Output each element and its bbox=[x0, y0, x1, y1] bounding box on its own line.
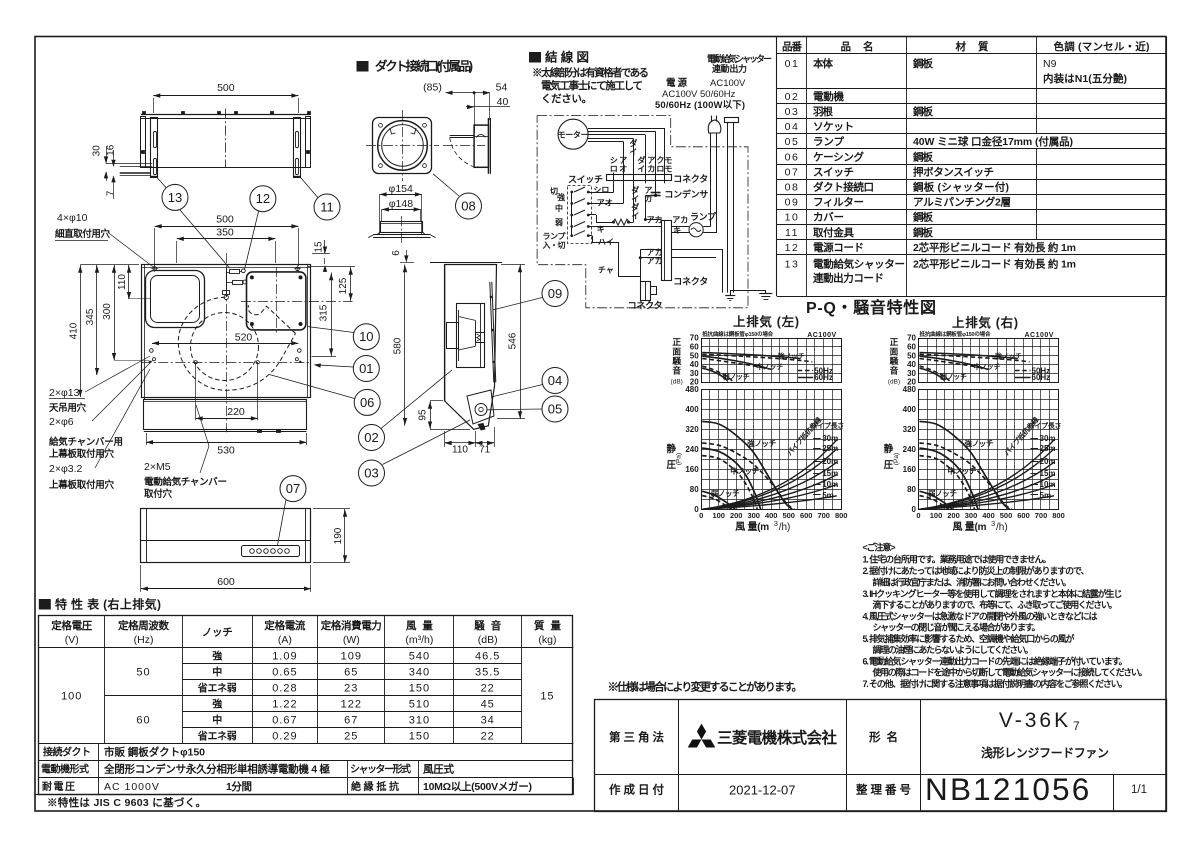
motor M bbox=[558, 119, 588, 149]
svg-text:05: 05 bbox=[785, 136, 800, 148]
svg-text:16: 16 bbox=[106, 144, 117, 156]
svg-text:600: 600 bbox=[217, 576, 235, 588]
svg-text:520: 520 bbox=[235, 332, 253, 344]
svg-text:0: 0 bbox=[699, 511, 703, 520]
svg-text:弱ノッチ: 弱ノッチ bbox=[711, 488, 740, 498]
svg-text:電 源: 電 源 bbox=[666, 77, 687, 89]
svg-text:2×φ13: 2×φ13 bbox=[49, 387, 80, 399]
svg-text:60: 60 bbox=[136, 714, 150, 726]
svg-text:800: 800 bbox=[835, 511, 848, 520]
fan curve strong 60Hz bbox=[702, 421, 792, 509]
front elevation outline bbox=[141, 509, 311, 563]
svg-text:電源コード: 電源コード bbox=[813, 241, 864, 254]
svg-text:強: 強 bbox=[212, 650, 222, 663]
svg-text:2021-12-07: 2021-12-07 bbox=[729, 783, 796, 798]
svg-text:5. 排気捕集効率に影響するため、空調機や給気口からの風が: 5. 排気捕集効率に影響するため、空調機や給気口からの風が bbox=[863, 633, 1076, 644]
svg-text:ク: ク bbox=[656, 155, 664, 165]
balloon 08 + leader bbox=[456, 193, 482, 219]
svg-text:中ノッチ: 中ノッチ bbox=[756, 362, 783, 371]
fan curve strong 50Hz bbox=[920, 443, 1012, 509]
fan curve mid 60Hz bbox=[702, 448, 761, 509]
svg-text:80: 80 bbox=[690, 485, 699, 494]
svg-text:強ノッチ: 強ノッチ bbox=[995, 351, 1022, 360]
svg-text:30m: 30m bbox=[822, 434, 838, 443]
svg-text:1. 住宅の台所用です。業務用途では使用できません。: 1. 住宅の台所用です。業務用途では使用できません。 bbox=[863, 554, 1052, 565]
svg-text:67: 67 bbox=[344, 714, 358, 726]
svg-text:04: 04 bbox=[548, 373, 562, 388]
svg-text:03: 03 bbox=[364, 466, 378, 481]
svg-text:2. 据付けにあたっては地域により防災上の制限がありますので: 2. 据付けにあたっては地域により防災上の制限がありますので、 bbox=[863, 565, 1090, 576]
svg-text:作 成 日 付: 作 成 日 付 bbox=[609, 783, 665, 797]
chart grid (noise plot) bbox=[919, 338, 1059, 340]
main vertical centerline bbox=[226, 253, 228, 432]
svg-text:抵抗曲線は鋼板管φ150の場合: 抵抗曲線は鋼板管φ150の場合 bbox=[920, 330, 991, 338]
svg-text:(dB): (dB) bbox=[478, 634, 498, 646]
svg-text:強: 強 bbox=[212, 697, 222, 710]
svg-text:抵抗曲線は鋼板管φ150の場合: 抵抗曲線は鋼板管φ150の場合 bbox=[702, 330, 773, 338]
svg-text:3. IHクッキングヒーター等を使用して調理をされますと本体: 3. IHクッキングヒーター等を使用して調理をされますと本体に結露が生じ bbox=[863, 588, 1123, 599]
svg-text:中: 中 bbox=[555, 203, 563, 213]
svg-text:400: 400 bbox=[685, 405, 699, 414]
svg-text:品番: 品番 bbox=[782, 40, 803, 53]
svg-text:ダクト接続口: ダクト接続口 bbox=[813, 180, 874, 193]
svg-text:イ: イ bbox=[631, 212, 639, 221]
ground symbol right bbox=[759, 293, 772, 295]
svg-text:150: 150 bbox=[409, 730, 430, 742]
balloon 09 + leader bbox=[542, 281, 568, 307]
svg-text:122: 122 bbox=[341, 698, 362, 710]
svg-text:コネクタ: コネクタ bbox=[673, 173, 708, 184]
svg-text:風 量: 風 量 bbox=[406, 619, 434, 632]
svg-text:キ: キ bbox=[673, 226, 681, 235]
svg-text:110: 110 bbox=[452, 445, 468, 456]
duct adapter bottom view bbox=[381, 222, 423, 233]
connector 3 bbox=[641, 282, 651, 301]
svg-text:調理の油煙にあたらないようにしてください。: 調理の油煙にあたらないようにしてください。 bbox=[873, 644, 1034, 655]
svg-text:カ: カ bbox=[647, 165, 655, 174]
svg-text:25m: 25m bbox=[822, 444, 838, 453]
svg-text:95: 95 bbox=[417, 409, 428, 421]
svg-text:オ: オ bbox=[619, 165, 627, 174]
svg-text:チャ: チャ bbox=[598, 266, 614, 275]
svg-text:05: 05 bbox=[548, 402, 562, 417]
fan impeller dashed circle bbox=[191, 313, 259, 381]
svg-text:480: 480 bbox=[685, 385, 699, 394]
svg-text:20m: 20m bbox=[1040, 457, 1056, 466]
fan curve mid 50Hz bbox=[920, 456, 975, 510]
switch contacts bbox=[571, 192, 573, 237]
svg-text:4. 風圧式シャッターは急激なドアの開閉や外風の強いときなど: 4. 風圧式シャッターは急激なドアの開閉や外風の強いときなどには bbox=[863, 611, 1098, 622]
svg-text:160: 160 bbox=[685, 465, 699, 474]
balloon 07 + leader bbox=[280, 476, 306, 502]
svg-text:弱ノッチ: 弱ノッチ bbox=[940, 372, 967, 381]
svg-text:13: 13 bbox=[785, 259, 800, 271]
ground symbol left bbox=[725, 295, 735, 297]
svg-text:全閉形コンデンサ永久分相形単相誘導電動機 4 極: 全閉形コンデンサ永久分相形単相誘導電動機 4 極 bbox=[103, 763, 331, 776]
svg-text:コンデンサ: コンデンサ bbox=[664, 189, 708, 200]
dim phi154 bbox=[379, 194, 381, 235]
svg-text:※仕様は場合により変更することがあります。: ※仕様は場合により変更することがあります。 bbox=[608, 680, 803, 694]
svg-text:0: 0 bbox=[916, 511, 920, 520]
leader 11 to bracket bbox=[301, 178, 318, 198]
svg-text:ダ: ダ bbox=[637, 155, 645, 165]
svg-text:10: 10 bbox=[359, 329, 373, 344]
svg-text:N9: N9 bbox=[1043, 58, 1057, 70]
bottom feet marks bbox=[258, 430, 262, 433]
svg-text:08: 08 bbox=[785, 181, 800, 193]
svg-text:騒 音: 騒 音 bbox=[473, 619, 502, 632]
fan curve weak 60Hz bbox=[920, 491, 953, 509]
svg-text:面: 面 bbox=[890, 347, 899, 357]
balloon 13 bbox=[162, 184, 188, 210]
svg-text:上幕板取付用穴: 上幕板取付用穴 bbox=[49, 448, 114, 460]
M5 hole extension lines + holes bbox=[195, 362, 197, 420]
fan curve strong 60Hz bbox=[920, 421, 1010, 509]
svg-text:350: 350 bbox=[216, 226, 234, 238]
svg-text:1/1: 1/1 bbox=[1131, 784, 1147, 796]
svg-text:鋼板: 鋼板 bbox=[912, 57, 934, 70]
svg-text:接続ダクト: 接続ダクト bbox=[43, 746, 91, 759]
svg-text:定格消費電力: 定格消費電力 bbox=[320, 619, 382, 632]
svg-text:強ノッチ: 強ノッチ bbox=[778, 351, 805, 360]
lower front section bbox=[144, 398, 146, 400]
svg-text:中ノッチ: 中ノッチ bbox=[948, 466, 977, 476]
svg-text:音: 音 bbox=[890, 365, 899, 376]
svg-text:50: 50 bbox=[690, 351, 699, 360]
left mounting bracket (part 11) bbox=[141, 117, 146, 168]
svg-text:09: 09 bbox=[548, 286, 562, 301]
dim 6 top bbox=[406, 250, 408, 262]
svg-text:面: 面 bbox=[672, 347, 681, 357]
svg-text:耐 電 圧: 耐 電 圧 bbox=[42, 780, 77, 793]
switch panel (part 07) bbox=[242, 546, 300, 557]
svg-text:(kg): (kg) bbox=[538, 634, 556, 646]
svg-text:200: 200 bbox=[947, 511, 960, 520]
dim 530 bbox=[146, 433, 148, 445]
svg-text:上排気 (右): 上排気 (右) bbox=[952, 315, 1018, 330]
svg-text:546: 546 bbox=[507, 332, 518, 349]
svg-text:NB121056: NB121056 bbox=[925, 771, 1091, 807]
svg-text:音: 音 bbox=[672, 365, 681, 376]
svg-text:345: 345 bbox=[85, 308, 96, 325]
svg-text:6: 6 bbox=[391, 250, 402, 256]
svg-text:500: 500 bbox=[1000, 511, 1013, 520]
motor and casing bbox=[457, 304, 485, 368]
svg-text:02: 02 bbox=[364, 430, 378, 445]
svg-text:P-Q・騒音特性図: P-Q・騒音特性図 bbox=[806, 298, 936, 317]
svg-text:40W ミニ球 口金径17mm (付属品): 40W ミニ球 口金径17mm (付属品) bbox=[913, 135, 1073, 148]
svg-text:400: 400 bbox=[903, 405, 917, 414]
section title duct adapter bbox=[357, 61, 369, 72]
ground bracket bbox=[730, 290, 766, 292]
svg-text:カバー: カバー bbox=[813, 212, 844, 224]
svg-text:φ148: φ148 bbox=[389, 198, 413, 210]
svg-text:25: 25 bbox=[344, 730, 358, 742]
svg-text:07: 07 bbox=[785, 166, 800, 178]
svg-text:AC100V: AC100V bbox=[710, 78, 746, 89]
characteristics table title bbox=[39, 599, 51, 610]
svg-text:3: 3 bbox=[991, 519, 995, 528]
svg-text:弱ノッチ: 弱ノッチ bbox=[723, 372, 750, 381]
svg-text:市販 鋼板ダクトφ150: 市販 鋼板ダクトφ150 bbox=[104, 746, 205, 759]
svg-text:12: 12 bbox=[256, 191, 270, 206]
svg-text:コネクタ: コネクタ bbox=[673, 276, 708, 287]
noise curves bbox=[920, 353, 1018, 359]
svg-text:09: 09 bbox=[785, 197, 800, 209]
svg-text:01: 01 bbox=[359, 361, 373, 376]
svg-text:中: 中 bbox=[212, 713, 222, 726]
svg-text:羽根: 羽根 bbox=[813, 105, 834, 118]
svg-text:0.28: 0.28 bbox=[272, 682, 297, 694]
svg-text:410: 410 bbox=[69, 322, 80, 339]
svg-text:スイッチ: スイッチ bbox=[568, 175, 603, 185]
svg-text:1.09: 1.09 bbox=[272, 651, 297, 663]
svg-text:アカ: アカ bbox=[647, 215, 663, 224]
svg-text:(dB): (dB) bbox=[888, 379, 900, 386]
svg-text:07: 07 bbox=[286, 481, 300, 496]
svg-text:ロ: ロ bbox=[656, 165, 664, 174]
svg-text:電動給気シャッター: 電動給気シャッター bbox=[813, 258, 905, 271]
svg-text:150: 150 bbox=[409, 682, 430, 694]
dim 54 bbox=[483, 91, 490, 95]
svg-text:イ: イ bbox=[637, 165, 645, 174]
svg-text:160: 160 bbox=[903, 465, 917, 474]
connector bar 1 bbox=[607, 175, 672, 181]
svg-text:鋼板: 鋼板 bbox=[912, 105, 934, 118]
svg-text:15m: 15m bbox=[822, 469, 838, 478]
characteristics table bbox=[39, 616, 573, 795]
balloon 01 + leader arrow bbox=[353, 356, 379, 382]
svg-text:2芯平形ビニルコード 有効長 約 1m: 2芯平形ビニルコード 有効長 約 1m bbox=[913, 241, 1076, 254]
svg-text:鋼板 (シャッター付): 鋼板 (シャッター付) bbox=[912, 180, 1009, 193]
fan curve weak 60Hz bbox=[702, 491, 735, 509]
legend bbox=[1015, 370, 1031, 372]
svg-text:300: 300 bbox=[102, 303, 113, 320]
svg-text:鋼板: 鋼板 bbox=[912, 211, 934, 224]
svg-text:54: 54 bbox=[496, 82, 508, 94]
svg-text:23: 23 bbox=[344, 682, 358, 694]
svg-text:0.65: 0.65 bbox=[272, 666, 297, 678]
svg-text:22: 22 bbox=[481, 682, 495, 694]
svg-text:580: 580 bbox=[392, 337, 403, 354]
svg-text:風 量(m: 風 量(m bbox=[735, 520, 769, 533]
svg-text:滴下することがありますので、布等にて、ふき取ってご使用くださ: 滴下することがありますので、布等にて、ふき取ってご使用ください。 bbox=[873, 599, 1118, 610]
svg-text:40: 40 bbox=[907, 360, 916, 369]
svg-text:上幕板取付用穴: 上幕板取付用穴 bbox=[49, 479, 114, 491]
lamp assembly (parts 04,05) bbox=[467, 390, 494, 424]
svg-text:取付穴: 取付穴 bbox=[144, 488, 172, 500]
svg-text:電動給気シャッター: 電動給気シャッター bbox=[707, 53, 772, 64]
svg-text:60: 60 bbox=[690, 342, 699, 351]
dim 190 bbox=[313, 508, 350, 510]
svg-text:30: 30 bbox=[690, 369, 699, 378]
scroll casing dashed outline bbox=[178, 297, 295, 390]
svg-text:ソケット: ソケット bbox=[813, 121, 854, 133]
svg-text:強: 強 bbox=[557, 192, 565, 202]
svg-text:(dB): (dB) bbox=[671, 379, 683, 386]
svg-text:V-36K: V-36K bbox=[999, 709, 1071, 732]
svg-text:強ノッチ: 強ノッチ bbox=[747, 438, 776, 448]
svg-text:定格周波数: 定格周波数 bbox=[117, 619, 170, 632]
dim 500 front view bbox=[154, 228, 156, 266]
centerlines right opening bbox=[241, 301, 353, 303]
svg-text:7: 7 bbox=[106, 190, 117, 196]
dim 546 side bbox=[501, 264, 525, 266]
svg-text:弱: 弱 bbox=[555, 217, 563, 227]
svg-text:7. その他、据付けに関する注意事項は据付説明書の内容をご参: 7. その他、据付けに関する注意事項は据付説明書の内容をご参照ください。 bbox=[863, 678, 1128, 689]
svg-text:ダ: ダ bbox=[631, 202, 639, 212]
svg-text:電動機形式: 電動機形式 bbox=[41, 763, 89, 776]
svg-text:15: 15 bbox=[540, 690, 554, 702]
svg-text:200: 200 bbox=[730, 511, 743, 520]
svg-text:騒: 騒 bbox=[890, 356, 899, 366]
svg-text:モーター: モーター bbox=[558, 130, 589, 140]
motor lead wires bbox=[588, 128, 665, 130]
svg-text:(Pa): (Pa) bbox=[676, 453, 683, 465]
svg-text:71: 71 bbox=[479, 445, 491, 456]
left vertical dims 110 300 345 410 bbox=[80, 264, 139, 266]
svg-text:電動給気チャンバー: 電動給気チャンバー bbox=[144, 476, 227, 488]
shutter output connector flat bbox=[725, 118, 739, 123]
parts table bbox=[777, 36, 1166, 38]
svg-text:500: 500 bbox=[216, 213, 234, 225]
svg-text:100: 100 bbox=[61, 690, 82, 702]
dim 520 scroll bbox=[152, 343, 298, 345]
svg-text:ダクト接続口(付属品): ダクト接続口(付属品) bbox=[375, 59, 473, 74]
balloon 12 bbox=[250, 186, 276, 212]
mitsubishi three-diamond logo bbox=[697, 724, 706, 740]
leader 13 to front view cord bbox=[180, 210, 230, 268]
svg-text:質 量: 質 量 bbox=[534, 619, 562, 632]
duct adapter front view bbox=[373, 118, 432, 174]
svg-text:15: 15 bbox=[314, 241, 325, 253]
power cord edge-on (top view) bbox=[120, 172, 151, 174]
svg-text:詳細は行政官庁または、消防署にお問い合わせください。: 詳細は行政官庁または、消防署にお問い合わせください。 bbox=[873, 577, 1072, 588]
horizontal centerline bbox=[141, 362, 310, 364]
svg-text:ください。: ください。 bbox=[541, 93, 592, 105]
svg-text:109: 109 bbox=[341, 651, 362, 663]
svg-text:190: 190 bbox=[333, 527, 344, 544]
svg-text:50: 50 bbox=[907, 351, 916, 360]
capacitor C bbox=[655, 181, 657, 195]
svg-text:04: 04 bbox=[785, 121, 800, 133]
svg-text:300: 300 bbox=[965, 511, 978, 520]
svg-text:1分間: 1分間 bbox=[226, 780, 252, 793]
svg-text:整 理 番 号: 整 理 番 号 bbox=[855, 783, 911, 797]
left filter opening bbox=[146, 271, 205, 328]
svg-text:スイッチ: スイッチ bbox=[813, 166, 854, 178]
svg-text:6. 電動給気シャッター連動出力コードの先端には絶縁端子が付: 6. 電動給気シャッター連動出力コードの先端には絶縁端子が付いています。 bbox=[863, 656, 1128, 667]
svg-text:ダ: ダ bbox=[629, 138, 637, 148]
svg-text:510: 510 bbox=[409, 698, 430, 710]
svg-text:/h): /h) bbox=[779, 522, 791, 533]
svg-text:70: 70 bbox=[907, 334, 916, 343]
svg-text:530: 530 bbox=[217, 445, 235, 457]
svg-text:正: 正 bbox=[890, 337, 899, 347]
svg-text:形 名: 形 名 bbox=[869, 730, 898, 744]
dim (85) bbox=[446, 92, 490, 94]
svg-text:※特性は JIS C 9603 に基づく。: ※特性は JIS C 9603 に基づく。 bbox=[47, 796, 206, 809]
svg-text:(Hz): (Hz) bbox=[134, 634, 154, 646]
svg-text:AC100V: AC100V bbox=[1025, 332, 1054, 339]
svg-text:30m: 30m bbox=[1040, 434, 1056, 443]
svg-text:イ: イ bbox=[629, 148, 637, 157]
crosshair centerlines bbox=[402, 110, 404, 181]
svg-text:シャッターの閉じ音が聞こえる場合があります。: シャッターの閉じ音が聞こえる場合があります。 bbox=[873, 622, 1041, 633]
filter slant (part 09) bbox=[490, 282, 494, 382]
balloon 06 + leader bbox=[354, 389, 380, 415]
svg-text:20m: 20m bbox=[822, 457, 838, 466]
svg-text:浅形レンジフードファン: 浅形レンジフードファン bbox=[981, 745, 1109, 760]
svg-text:2×φ3.2: 2×φ3.2 bbox=[49, 463, 83, 475]
svg-text:02: 02 bbox=[785, 91, 800, 103]
svg-text:ロ: ロ bbox=[610, 165, 618, 174]
svg-text:1.22: 1.22 bbox=[272, 698, 297, 710]
svg-text:鋼板: 鋼板 bbox=[912, 226, 934, 239]
balloon 11 bbox=[314, 194, 340, 220]
damper linkage at top center bbox=[226, 268, 228, 297]
svg-text:特 性 表 (右上排気): 特 性 表 (右上排気) bbox=[55, 597, 161, 612]
svg-text:40: 40 bbox=[690, 360, 699, 369]
svg-text:60Hz: 60Hz bbox=[814, 373, 833, 382]
svg-text:省エネ弱: 省エネ弱 bbox=[197, 729, 237, 742]
svg-text:5m: 5m bbox=[1040, 491, 1052, 500]
svg-text:30: 30 bbox=[92, 145, 103, 157]
svg-text:35.5: 35.5 bbox=[475, 666, 500, 678]
svg-text:鋼板: 鋼板 bbox=[912, 150, 934, 163]
svg-text:600: 600 bbox=[1017, 511, 1030, 520]
svg-text:300: 300 bbox=[747, 511, 760, 520]
svg-text:240: 240 bbox=[685, 445, 699, 454]
svg-text:320: 320 bbox=[685, 425, 699, 434]
svg-text:ダ: ダ bbox=[631, 185, 639, 195]
svg-text:10MΩ以上(500Vメガー): 10MΩ以上(500Vメガー) bbox=[423, 780, 532, 793]
balloon 10 + leader bbox=[353, 324, 379, 350]
svg-text:内装はN1(五分艶): 内装はN1(五分艶) bbox=[1043, 72, 1127, 85]
svg-text:ケーシング: ケーシング bbox=[813, 150, 865, 163]
svg-text:使用の際はコードを途中から切断して電動給気シャッターに接続し: 使用の際はコードを途中から切断して電動給気シャッターに接続してください。 bbox=[872, 667, 1148, 678]
svg-text:色調 (マンセル・近): 色調 (マンセル・近) bbox=[1054, 40, 1150, 53]
thermal fuse / resistor bbox=[596, 222, 613, 224]
svg-text:540: 540 bbox=[409, 651, 430, 663]
svg-text:600: 600 bbox=[800, 511, 813, 520]
dim 7 bbox=[113, 176, 115, 199]
svg-text:60Hz: 60Hz bbox=[1032, 373, 1051, 382]
svg-text:中ノッチ: 中ノッチ bbox=[730, 466, 759, 476]
svg-text:240: 240 bbox=[903, 445, 917, 454]
svg-text:45: 45 bbox=[481, 698, 495, 710]
svg-text:08: 08 bbox=[461, 199, 475, 214]
svg-text:40: 40 bbox=[497, 96, 509, 108]
svg-text:7: 7 bbox=[1073, 719, 1080, 733]
svg-text:正: 正 bbox=[672, 337, 681, 347]
side hanger holes left bbox=[150, 349, 154, 353]
svg-text:/h): /h) bbox=[996, 522, 1008, 533]
svg-text:シロ: シロ bbox=[593, 186, 609, 195]
svg-text:コネクタ: コネクタ bbox=[628, 300, 663, 311]
svg-text:アカ: アカ bbox=[672, 215, 688, 224]
svg-text:電動機: 電動機 bbox=[813, 90, 845, 103]
shutter open flap + swing arc bbox=[450, 135, 474, 137]
fan curve weak 50Hz bbox=[920, 496, 950, 510]
svg-text:品 名: 品 名 bbox=[841, 40, 874, 53]
svg-text:(Pa): (Pa) bbox=[893, 453, 900, 465]
svg-text:2芯平形ビニルコード 有効長 約 1m: 2芯平形ビニルコード 有効長 約 1m bbox=[913, 258, 1076, 271]
svg-text:110: 110 bbox=[117, 274, 128, 290]
svg-text:01: 01 bbox=[785, 58, 800, 70]
svg-text:06: 06 bbox=[360, 395, 374, 410]
svg-text:11: 11 bbox=[785, 227, 799, 239]
